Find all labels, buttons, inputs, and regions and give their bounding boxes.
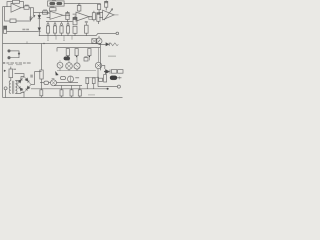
label mark: [30, 75, 33, 78]
meter M1: [98, 36, 100, 38]
wire left border: [2, 7, 4, 98]
wire rail B: [31, 88, 107, 90]
node ticks below rail1: [48, 36, 72, 40]
capacitor C2 stack: [73, 17, 77, 24]
fuse box F1: [48, 1, 65, 6]
op-amp U4: [103, 10, 114, 20]
resistor R7: [47, 23, 49, 25]
label 1/3: [22, 29, 25, 31]
wire bridge bottom: [23, 93, 25, 98]
wire U1 output: [29, 7, 34, 9]
transistor Q4: [66, 63, 73, 70]
capacitor C4: [64, 57, 70, 60]
label F1: [52, 0, 56, 2]
wire rail1 (upper supply rail): [39, 33, 116, 35]
wire rail A: [54, 85, 82, 87]
wire C1 to D1: [7, 31, 38, 33]
diode D2: [38, 13, 40, 16]
wire Q6 collector: [102, 66, 105, 70]
wire bridge right: [31, 84, 35, 86]
resistor R32: [104, 75, 107, 82]
label dash right: [108, 56, 116, 57]
resistor R27: [70, 90, 73, 96]
op-amp U3: [76, 12, 89, 21]
resistor R8: [54, 23, 56, 25]
wire meter to D3: [99, 43, 106, 46]
resistor R10: [67, 23, 69, 25]
jumper link J1: [8, 50, 10, 52]
bridge rectifier BR1: [17, 77, 31, 93]
resistor R26: [60, 90, 63, 96]
node output terminal T3: [117, 85, 120, 88]
resistor R9: [61, 23, 63, 25]
wire bridge top: [15, 74, 25, 77]
resistor R31 pill: [99, 78, 103, 81]
resistor R24: [84, 58, 88, 61]
node tick rail2: [26, 41, 28, 43]
transistor Q1: [33, 13, 35, 15]
capacitor C6 electrolytic: [110, 76, 117, 80]
wire U3 output: [89, 16, 92, 18]
transistor Q3: [57, 62, 63, 68]
node junction dots: [104, 71, 105, 72]
wire bias row: [85, 76, 97, 78]
resistor R34: [118, 70, 123, 74]
wire U1 input: [3, 6, 11, 8]
resistor R25: [40, 90, 43, 96]
resistor R1 feedback: [7, 2, 13, 7]
resistor R4: [43, 11, 48, 14]
wire U1 out to mid path: [34, 8, 49, 13]
label caption text: [3, 62, 31, 65]
wire top rail: [64, 3, 100, 5]
wire U4 output: [114, 14, 119, 16]
wire row bus: [46, 21, 73, 23]
resistor R14: [97, 13, 100, 22]
wire bottom ground rail: [3, 97, 123, 99]
wire rail2 (lower supply rail): [3, 43, 101, 45]
resistor R20: [40, 70, 43, 79]
wire Q risers: [60, 48, 99, 71]
resistor R13: [92, 13, 95, 20]
capacitor C5 pill: [61, 76, 66, 79]
wire U2 output: [63, 14, 70, 16]
wire riser x41.5: [41, 44, 43, 71]
resistor R18 zigzag: [109, 43, 118, 46]
resistor R19: [10, 67, 12, 69]
paper background: [0, 0, 127, 100]
transistor Q7: [68, 76, 74, 82]
transformer TR1: [9, 81, 11, 94]
wire Q6 emitter drop: [97, 69, 99, 87]
resistor R3 feedback loop: [16, 8, 31, 21]
wire output terminal lead: [98, 86, 117, 88]
resistor R30: [92, 78, 95, 84]
crystal X1: [92, 39, 97, 44]
resistor R28: [78, 90, 81, 96]
wire output row: [57, 70, 96, 72]
resistor R6: [66, 13, 69, 20]
transistor Q2: [51, 80, 57, 86]
resistor R29: [86, 78, 89, 84]
op-amp U1: [11, 3, 21, 12]
resistor R16b: [89, 17, 92, 20]
resistor R5: [49, 11, 51, 13]
capacitor C1: [4, 26, 7, 33]
node input terminal T2: [4, 87, 7, 90]
transistor Q5: [74, 63, 80, 69]
resistor R22: [75, 49, 78, 56]
resistor R11: [73, 26, 77, 33]
resistor R23: [88, 49, 91, 56]
resistor R33: [111, 70, 116, 74]
resistor R15: [99, 3, 101, 6]
transistor Q6: [95, 62, 101, 68]
node output terminal T1: [116, 32, 119, 35]
frame output stage: [57, 44, 100, 71]
resistor R16: [85, 21, 88, 23]
diode arrow mark: [55, 71, 58, 75]
resistor R2: [21, 7, 24, 9]
diode D1: [38, 19, 40, 28]
node arrow tick: [4, 70, 6, 72]
op-amp U2: [50, 11, 63, 19]
diode D3: [106, 43, 109, 46]
diode D4: [105, 69, 109, 73]
label dash bottom: [88, 94, 95, 95]
resistor R12: [78, 4, 80, 6]
resistor R21: [66, 49, 69, 56]
resistor R17: [105, 0, 107, 1]
capacitor C3 axial: [40, 82, 44, 84]
wire riser x34.6: [35, 72, 42, 85]
